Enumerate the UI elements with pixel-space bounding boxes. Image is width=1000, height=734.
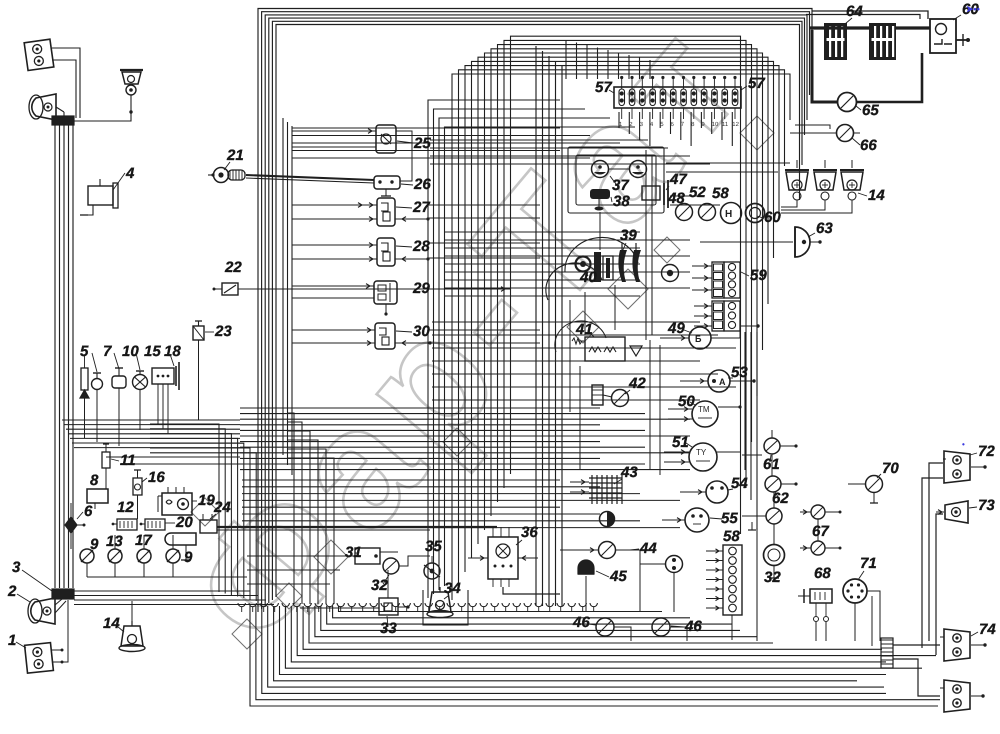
svg-text:➤••: ➤•• [966, 4, 980, 14]
svg-text:65: 65 [862, 102, 879, 119]
svg-text:TM: TM [698, 405, 710, 414]
component 62b [766, 508, 782, 524]
svg-text:9: 9 [90, 536, 99, 553]
svg-text:Б: Б [695, 334, 702, 344]
two-dot circle right of 45 [666, 556, 683, 573]
svg-text:24: 24 [213, 499, 231, 516]
junction circle with dot [662, 265, 679, 282]
switch 29 [374, 281, 397, 304]
component 23 [193, 326, 204, 340]
component 10 [112, 376, 126, 388]
component 20 connector [145, 519, 165, 530]
svg-text:44: 44 [639, 540, 657, 557]
svg-text:51: 51 [672, 434, 689, 451]
svg-text:33: 33 [380, 620, 397, 637]
svg-text:46: 46 [684, 618, 702, 635]
wire top bundle to batteries [812, 11, 928, 19]
component 44 [599, 542, 616, 559]
component 8 [87, 489, 108, 503]
wires 31 32 33 thick [247, 569, 340, 571]
svg-text:4: 4 [125, 165, 135, 182]
wire 63 left [700, 241, 793, 243]
wire 66 left [790, 132, 837, 134]
wire 22 right [238, 288, 510, 290]
gauges 9 13 17 9 row [80, 549, 94, 563]
battery 64 right [869, 23, 896, 60]
component 21 ignition switch [214, 168, 229, 183]
wire 16 down [137, 495, 139, 519]
wire left band down-turns [150, 424, 219, 592]
component 46 left [596, 618, 614, 636]
wire H bands upper (to switches 25-30) [292, 127, 560, 129]
component 51 [689, 443, 717, 471]
wire gauges bus [86, 563, 88, 577]
component 33 [379, 598, 398, 615]
svg-text:6: 6 [84, 503, 93, 520]
headlamp top-left [32, 94, 56, 120]
wires lamps 14 [781, 200, 797, 207]
component 6 diamond [65, 517, 77, 533]
connector stack 58 right [723, 545, 742, 615]
watermark diamond chain [232, 619, 262, 649]
relay cluster 39 40 [576, 257, 591, 272]
ammeter 65 [838, 93, 857, 112]
junction block top-left [52, 116, 74, 125]
svg-text:16: 16 [148, 469, 165, 486]
component 67 [811, 505, 825, 519]
component 18 [152, 368, 174, 384]
svg-text:34: 34 [444, 580, 461, 597]
wires 25 [292, 130, 376, 132]
wire outer frame bundle [258, 9, 812, 613]
wires 29 [292, 285, 374, 287]
svg-text:72: 72 [978, 443, 995, 460]
svg-text:59: 59 [750, 267, 767, 284]
svg-text:11: 11 [120, 452, 136, 469]
small lamp top (turn indicator) [122, 72, 141, 84]
component 35 [424, 563, 440, 579]
component 22 switch [222, 283, 238, 295]
wires 30 [292, 329, 375, 331]
wire lower horizontal band [242, 479, 560, 481]
svg-text:27: 27 [412, 199, 430, 216]
svg-text:47: 47 [669, 171, 687, 188]
horn 63 [795, 227, 810, 257]
svg-text:40: 40 [579, 269, 597, 286]
component 66 [837, 125, 854, 142]
wire 21 to 26 [246, 175, 374, 180]
component 43 grid [589, 477, 622, 479]
svg-text:57: 57 [748, 75, 765, 92]
svg-text:32: 32 [764, 569, 781, 586]
component 32a [383, 558, 399, 574]
component 70 [866, 476, 883, 493]
component 71 [843, 579, 867, 603]
component 38 [590, 189, 610, 199]
svg-text:74: 74 [979, 621, 996, 638]
junction 3 block [52, 589, 74, 599]
svg-text:12: 12 [732, 122, 739, 128]
wire central vertical bundle left [428, 100, 560, 598]
component 54 [706, 481, 728, 503]
svg-text:8: 8 [90, 472, 99, 489]
switch 28 [377, 238, 395, 266]
svg-text:53: 53 [731, 364, 748, 381]
component 49 distributor [689, 327, 711, 349]
svg-text:67: 67 [812, 523, 829, 540]
wire vertical pair right of 39 [645, 150, 647, 340]
svg-text:50: 50 [678, 393, 695, 410]
fuse block 57 [614, 87, 741, 108]
svg-text:3: 3 [12, 559, 21, 576]
wire risers to rear lamps 72 73 [929, 463, 943, 641]
component 36 box [488, 537, 518, 579]
svg-text:28: 28 [412, 238, 430, 255]
rear lamp 74b [944, 680, 970, 712]
wire band rows 320-400 [432, 321, 700, 323]
wire headlamp to junction [56, 107, 64, 112]
battery 64 left [824, 23, 847, 60]
component 31 [355, 548, 380, 564]
svg-text:37: 37 [612, 177, 629, 194]
switch 26 [374, 176, 400, 189]
component 7 [92, 379, 103, 390]
wire right column verticals [744, 332, 746, 470]
lamps 14 right [786, 172, 808, 190]
svg-text:2: 2 [7, 583, 17, 600]
svg-text:52: 52 [689, 184, 706, 201]
component 5 fuse [81, 368, 88, 390]
wire fuse feed verticals [565, 40, 567, 79]
wire 14 up [131, 601, 133, 626]
wire 6 stem [70, 503, 72, 517]
wire mid band extra lines [106, 456, 240, 458]
svg-text:20: 20 [175, 514, 193, 531]
component 50 [692, 401, 718, 427]
svg-text:21: 21 [226, 147, 244, 164]
svg-text:35: 35 [425, 538, 442, 555]
component 11 [102, 452, 110, 468]
component 32b [764, 545, 785, 566]
svg-text:15: 15 [144, 343, 161, 360]
wire marker lamp to junction [52, 48, 80, 118]
svg-text:62: 62 [772, 490, 789, 507]
wire arcs around 39 cluster [565, 237, 638, 272]
wire band rows 230-300 [445, 231, 640, 233]
svg-text:73: 73 [978, 497, 995, 514]
svg-text:71: 71 [860, 555, 877, 572]
starter switch 60 top [930, 19, 956, 53]
switch 30 [375, 323, 395, 349]
svg-text:1: 1 [8, 632, 16, 649]
wire block to 61 62 [742, 454, 762, 456]
svg-text:39: 39 [620, 227, 637, 244]
svg-text:64: 64 [846, 3, 863, 20]
wire 4 leader [113, 173, 125, 190]
relay 37 [592, 161, 609, 178]
wire 23 down [198, 340, 200, 420]
wire small lamp down [74, 95, 131, 121]
wire central vertical bundle dark [535, 46, 537, 606]
svg-text:9: 9 [184, 549, 193, 566]
svg-text:12: 12 [117, 499, 134, 516]
wire 2 to junction [55, 599, 62, 605]
dark circle below 43 [600, 512, 615, 527]
component 68 [810, 589, 832, 603]
component 62a [765, 476, 781, 492]
wire bottom loops row (block bottom edge) [238, 603, 245, 607]
svg-text:55: 55 [721, 510, 738, 527]
svg-text:58: 58 [712, 185, 729, 202]
component 19 regulator [162, 493, 192, 515]
wire verticals center-south [584, 292, 586, 335]
wire bottom mega bundle with staircase [250, 606, 938, 706]
component 12 connector [117, 519, 137, 530]
component 15 [133, 375, 148, 390]
connector stack 59 [712, 262, 724, 298]
component 46 right [652, 618, 670, 636]
relay cluster 37 38 frame [568, 147, 664, 213]
rear lamp 74 [944, 629, 970, 661]
svg-text:41: 41 [575, 321, 593, 338]
svg-text:58: 58 [723, 528, 740, 545]
marker lamp 1 [25, 643, 54, 674]
marker lamp top-left [24, 39, 54, 70]
wire battery link thick [810, 26, 869, 29]
rear lamp 72 [944, 451, 970, 483]
svg-text:48: 48 [667, 190, 685, 207]
wire 24 thick to block [217, 526, 497, 528]
svg-text:46: 46 [572, 614, 590, 631]
component 4 box [88, 186, 113, 205]
component 24 starter relay [200, 520, 217, 533]
svg-text:43: 43 [620, 464, 638, 481]
svg-text:57: 57 [595, 79, 612, 96]
component 45 [578, 560, 594, 574]
svg-text:36: 36 [521, 524, 538, 541]
svg-text:TY: TY [696, 448, 707, 457]
svg-text:30: 30 [413, 323, 430, 340]
wires 27 [292, 204, 377, 206]
switch 25 [376, 125, 396, 153]
wires 28 [292, 244, 377, 246]
wire battery loop thick [812, 30, 838, 102]
svg-text:25: 25 [413, 135, 431, 152]
svg-text:70: 70 [882, 460, 899, 477]
wire 58 bottom [731, 615, 733, 640]
svg-text:66: 66 [860, 137, 877, 154]
relay cluster 41 [585, 337, 625, 361]
component 55 [685, 508, 709, 532]
component 47 48 [642, 186, 660, 200]
svg-text:49: 49 [667, 320, 685, 337]
wire left edge vertical bundle [54, 120, 56, 588]
svg-text:22: 22 [224, 259, 242, 276]
svg-text:45: 45 [609, 568, 627, 585]
svg-text:54: 54 [731, 475, 748, 492]
svg-text:26: 26 [413, 176, 431, 193]
svg-text:38: 38 [613, 193, 630, 210]
svg-text:68: 68 [814, 565, 831, 582]
svg-text:60: 60 [764, 209, 781, 226]
svg-text:14: 14 [103, 615, 120, 632]
svg-text:63: 63 [816, 220, 833, 237]
wire 36 bottom [503, 587, 560, 594]
switch 27 [377, 198, 395, 226]
svg-text:A: A [719, 377, 726, 387]
junction hatch right [881, 638, 893, 668]
wire 1 up [62, 600, 68, 662]
bell 14 left [121, 626, 143, 646]
wire nested rectangles top center [452, 74, 790, 600]
svg-text:19: 19 [198, 492, 215, 509]
wire to lamp 74b [893, 659, 940, 696]
component 42 [592, 385, 603, 405]
svg-text:61: 61 [763, 456, 780, 473]
svg-text:7: 7 [103, 343, 112, 360]
headlamp 2 [31, 598, 55, 624]
wire fills right of relay frame [666, 162, 790, 164]
wire mid horizontal band [62, 419, 240, 421]
component 61 [764, 438, 780, 454]
svg-text:23: 23 [214, 323, 232, 340]
rear lamp 73 [945, 501, 968, 523]
component starter under 24 [165, 533, 196, 545]
watermark [153, 0, 781, 683]
wire fuse-bottom horizontals [430, 139, 648, 141]
circle row 48 52 58 60 [676, 204, 693, 221]
wire 11 down [105, 468, 107, 489]
wires 44 45 down to band [585, 576, 587, 612]
wire band down-turns into staircase [288, 413, 294, 604]
component 16 [133, 478, 142, 495]
component 53 [708, 370, 730, 392]
wire left frame inner risers [282, 118, 284, 455]
wire to lamp 74 [893, 644, 940, 646]
bell 34 with bracket [429, 592, 451, 612]
svg-text:18: 18 [164, 343, 181, 360]
svg-text:42: 42 [628, 375, 646, 392]
wire junction-3 horizontals [74, 590, 250, 592]
svg-text:31: 31 [345, 544, 362, 561]
svg-text:11: 11 [722, 122, 729, 128]
svg-text:•΋: •΋ [962, 440, 965, 449]
wire risers from band to components [756, 528, 758, 641]
svg-text:29: 29 [412, 280, 430, 297]
svg-text:10: 10 [712, 122, 719, 128]
svg-text:H: H [725, 209, 732, 220]
svg-text:14: 14 [868, 187, 885, 204]
